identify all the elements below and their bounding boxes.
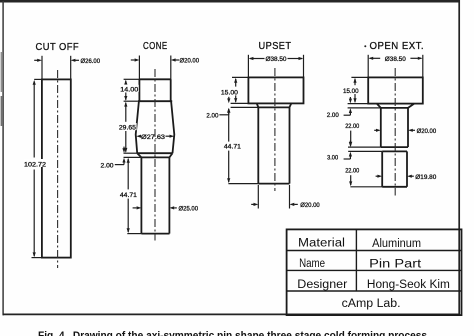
svg-text:Ø20.00: Ø20.00 (180, 58, 200, 65)
svg-text:Hong-Seok Kim: Hong-Seok Kim (367, 279, 450, 291)
cone shaft walls (140, 157, 142, 233)
dimension text 15.00 (upset) (221, 88, 239, 95)
extension of middle cylinder top edge (348, 107, 381, 109)
svg-text:Fig. 4. Drawing of the axi-sy: Fig. 4. Drawing of the axi-symmetric pin… (38, 330, 427, 336)
svg-text:102.72: 102.72 (24, 162, 46, 169)
dimension Ø27.63 arrows (140, 135, 141, 137)
extension of upset head bottom edge (231, 102, 249, 104)
dimension Ø38.50 line (upset) (250, 58, 265, 60)
svg-text:15.00: 15.00 (343, 88, 359, 95)
svg-text:Aluminum: Aluminum (372, 238, 421, 250)
dimension text 29.65 (118, 123, 136, 130)
svg-text:CUT OFF: CUT OFF (36, 41, 80, 53)
dimension text 102.72 (24, 159, 48, 167)
dimension text 22.00 lower (345, 167, 360, 174)
dimension 22.00 line lower (open ext) (350, 175, 352, 185)
svg-text:22.00: 22.00 (345, 168, 359, 175)
extension of billet bottom edge (32, 257, 42, 259)
dimension Ø26.00 leader right (71, 59, 76, 62)
upset neck chamfers (257, 103, 259, 107)
dimension 3.00 arrows (open ext) (349, 141, 351, 143)
extension of billet top edge (34, 78, 42, 80)
svg-text:3.00: 3.00 (327, 155, 338, 162)
extension of middle cylinder bottom edge (348, 146, 381, 148)
dimension Ø38.50 line (open ext) (370, 57, 380, 59)
svg-text:Pin Part: Pin Part (369, 258, 422, 270)
upset shaft top edge (258, 106, 289, 108)
dimension Ø19.80 arrows (open ext) (376, 175, 379, 177)
title block outer border (287, 229, 462, 315)
svg-text:Ø19.80: Ø19.80 (415, 174, 436, 181)
extension of cone shaft top edge (124, 156, 142, 158)
open-ext lower cylinder bottom edge (382, 186, 407, 188)
svg-text:29.65: 29.65 (119, 125, 136, 132)
open-ext middle cylinder bottom edge (381, 146, 408, 148)
upset shaft walls (257, 107, 259, 183)
svg-text:Ø25.00: Ø25.00 (179, 205, 199, 212)
upset head outline (248, 77, 303, 103)
dimension Ø25.00 arrows (cone shaft) (133, 207, 137, 209)
svg-text:2.00: 2.00 (101, 162, 114, 169)
border frame top edge (0, 0, 459, 3)
dimension Ø20.00 arrows (open ext) (374, 129, 377, 131)
open-ext lower cylinder top edge (382, 150, 407, 152)
title block row separators (287, 250, 462, 252)
extension of lower cylinder top edge (348, 150, 382, 152)
extension of cone bottom edge (124, 152, 138, 154)
svg-text:CONE: CONE (143, 40, 168, 52)
svg-text:Material: Material (298, 238, 345, 250)
svg-text:Name: Name (299, 258, 325, 270)
open-ext middle cylinder top edge (381, 107, 408, 109)
upset centerline (274, 68, 276, 191)
open-ext centerline (394, 68, 396, 196)
speck before OPEN EXT label (364, 45, 366, 47)
cone shaft bottom edge (141, 233, 169, 235)
cone junction edge (138, 100, 172, 102)
dimension 2.00 arrows (upset) (228, 97, 230, 99)
extension of upset shaft top edge (231, 106, 259, 108)
open-ext neck chamfers (377, 104, 381, 108)
dimension text Ø27.63 (141, 133, 165, 140)
dimension 102.72 line upper (33, 82, 35, 158)
dimension text 22.00 upper (345, 122, 360, 129)
svg-text:2.00: 2.00 (206, 113, 218, 120)
upset shaft bottom edge (258, 183, 289, 185)
svg-text:Ø27.63: Ø27.63 (141, 134, 165, 141)
cone bottom edge (137, 152, 172, 154)
extension lines of open-ext head diameter (367, 55, 369, 78)
extension of cone junction edge (124, 100, 138, 102)
svg-text:14.00: 14.00 (120, 86, 138, 93)
dimension 2.00 arrows (cone) (123, 147, 125, 149)
dimension Ø20.00 leader right (cone) (171, 58, 176, 61)
cone taper left wall (136, 101, 139, 153)
extension of open-ext head top edge (351, 76, 368, 78)
border frame left edge (2, 1, 4, 315)
cone top cylinder outline (139, 78, 170, 80)
extension of cone shaft bottom edge (127, 233, 141, 235)
dimension 22.00 line upper (open ext) (350, 131, 352, 146)
title block column separator (355, 229, 357, 291)
extension of upset shaft bottom edge (228, 183, 258, 185)
dimension 15.00 line (upset) (235, 79, 237, 87)
border frame right edge (458, 0, 460, 315)
svg-text:UPSET: UPSET (259, 40, 292, 52)
extension of cone top edge (124, 78, 140, 80)
extension of upset head top edge (232, 76, 248, 78)
cone taper right wall (171, 101, 174, 153)
svg-text:Designer: Designer (297, 279, 347, 291)
dimension 102.72 line lower (33, 170, 35, 257)
svg-text:Ø38.50: Ø38.50 (266, 56, 287, 63)
svg-text:15.00: 15.00 (221, 89, 238, 96)
extension lines of upset head diameter (247, 55, 249, 78)
extension lines of cone top diameter (138, 56, 140, 80)
dimension text 44.71 (cone) (119, 191, 137, 198)
dimension text 14.00 (120, 85, 139, 92)
dimension 15.00 line (open ext) (354, 79, 356, 85)
open-ext middle cylinder walls (380, 108, 382, 147)
dimension text 15.00 (open ext) (343, 86, 359, 93)
extension of lower cylinder bottom edge (350, 186, 382, 188)
svg-text:Ø26.00: Ø26.00 (81, 58, 101, 65)
svg-text:Ø38.50: Ø38.50 (385, 56, 406, 63)
cone shaft top edge (141, 156, 169, 158)
dimension 44.71 line (cone) (127, 159, 129, 190)
dimension 14.00 line (125, 81, 127, 84)
dimension 2.00 arrows (open ext) (349, 97, 351, 99)
cut-off centerline (57, 70, 59, 268)
svg-text:44.71: 44.71 (120, 192, 137, 199)
extension lines below upset shaft (257, 185, 259, 209)
cut-off billet outline (42, 79, 71, 257)
svg-text:44.71: 44.71 (224, 144, 241, 151)
extension of open-ext head bottom edge (348, 103, 369, 105)
open-ext lower cylinder walls (381, 151, 383, 186)
svg-text:Ø20.00: Ø20.00 (417, 128, 437, 135)
dimension Ø20.00 arrows (upset) (251, 203, 254, 205)
dimension Ø26.00 leader left (34, 59, 38, 61)
dimension Ø20.00 leader left (cone) (131, 59, 135, 61)
svg-text:Ø20.00: Ø20.00 (300, 202, 320, 209)
extension line left of Ø26.00 (41, 56, 43, 80)
dimension text 44.71 (upset) (224, 142, 242, 149)
cone centerline (154, 69, 156, 241)
cone chamfer to shaft (137, 153, 141, 157)
open-ext head outline (368, 77, 423, 103)
svg-text:22.00: 22.00 (345, 123, 359, 130)
border frame bottom edge (3, 313, 460, 315)
extension line right of Ø26.00 (70, 56, 72, 86)
dimension 29.65 line (125, 103, 127, 122)
svg-text:2.00: 2.00 (327, 112, 339, 119)
svg-text:OPEN EXT.: OPEN EXT. (370, 40, 425, 52)
dimension 44.71 line (upset) (228, 109, 230, 142)
svg-text:cAmp Lab.: cAmp Lab. (342, 298, 401, 310)
